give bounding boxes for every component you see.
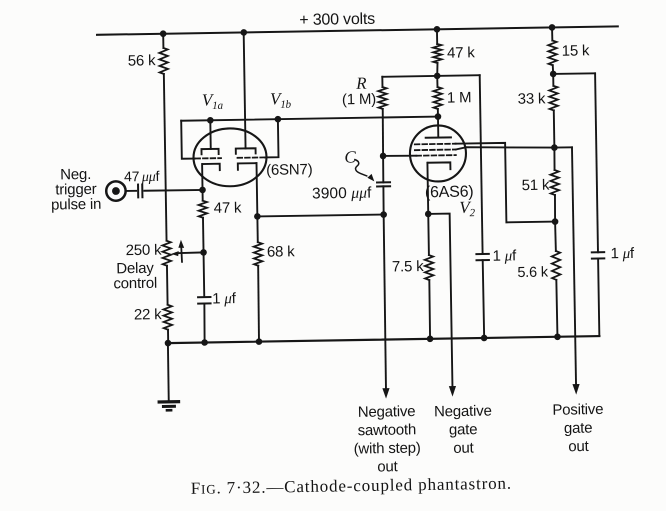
wire grid3 to 51k bottom bbox=[456, 142, 555, 223]
svg-text:Positive: Positive bbox=[552, 401, 603, 419]
svg-text:1 μf: 1 μf bbox=[492, 247, 517, 264]
wire junction to 47k top bbox=[202, 190, 204, 201]
grid V1b dashed bbox=[238, 156, 265, 158]
node ground-22k junction bbox=[165, 340, 172, 347]
wire 1uf right to ground rail end bbox=[598, 258, 599, 336]
svg-text:(with step): (with step) bbox=[354, 440, 421, 458]
wire V1a cathode lead bbox=[201, 164, 203, 190]
resistor 56k bbox=[159, 48, 168, 74]
svg-text:1 M: 1 M bbox=[447, 89, 472, 106]
arrow negative gate out bbox=[449, 386, 456, 397]
arrow negative sawtooth out bbox=[382, 388, 389, 399]
svg-text:56 k: 56 k bbox=[128, 52, 157, 69]
svg-text:68 k: 68 k bbox=[267, 243, 296, 260]
resistor 68k bbox=[254, 242, 263, 266]
node V2 cathode junction bbox=[425, 211, 432, 218]
wire +300V power rail bbox=[97, 26, 618, 34]
node ground-68k junction bbox=[256, 338, 263, 345]
node 15k-33k junction bbox=[550, 71, 557, 78]
svg-text:out: out bbox=[453, 440, 475, 457]
wire connector to C 47uuf bbox=[125, 190, 136, 192]
svg-text:47 k: 47 k bbox=[447, 44, 476, 61]
wire 33k bottom to junction bbox=[553, 110, 556, 147]
wire ground stem bbox=[168, 343, 169, 401]
capacitor 1uf screen bbox=[476, 253, 488, 255]
resistor 33k bbox=[549, 86, 558, 111]
capacitor 1uf right bbox=[592, 251, 604, 253]
wire 5.6k to ground rail bbox=[556, 280, 557, 337]
svg-text:gate: gate bbox=[449, 421, 478, 438]
ground symbol bbox=[159, 400, 178, 404]
wire pot bottom to 22k top bbox=[166, 266, 169, 305]
svg-text:pulse in: pulse in bbox=[51, 196, 101, 214]
wire 47k bottom to wiper junction bbox=[202, 218, 205, 253]
grid V1a dashed bbox=[195, 157, 221, 159]
node power-56k junction bbox=[160, 30, 167, 37]
tube V1 6SN7 envelope bbox=[193, 128, 267, 187]
node power-47k junction bbox=[434, 26, 441, 33]
node R-grid-C junction bbox=[380, 153, 387, 160]
node ground-1uf-delay junction bbox=[201, 339, 208, 346]
wire power to 56k top bbox=[162, 34, 164, 48]
cathode V1b bbox=[238, 163, 257, 170]
node power-15k junction bbox=[549, 24, 556, 31]
svg-text:22 k: 22 k bbox=[134, 306, 163, 323]
wire 22k bottom to ground rail bbox=[167, 330, 169, 343]
wire 51k bottom lead bbox=[554, 195, 557, 222]
wire V2 cathode lead bbox=[426, 163, 429, 214]
svg-text:3900 μμf: 3900 μμf bbox=[312, 185, 372, 203]
wire V1b plate to power rail bbox=[244, 32, 246, 148]
svg-text:5.6 k: 5.6 k bbox=[517, 265, 549, 282]
wire 1uf cap to ground rail bbox=[204, 303, 205, 342]
resistor 7.5k bbox=[425, 255, 434, 280]
wire grid1 to R-C junction bbox=[383, 154, 416, 157]
capacitor 1uf delay bbox=[198, 296, 210, 298]
wire cathode to negative gate line bbox=[428, 214, 452, 387]
resistor 1M bbox=[433, 87, 442, 109]
wire junction to 68k bbox=[256, 216, 258, 242]
svg-text:sawtooth: sawtooth bbox=[357, 421, 416, 439]
wire sawtooth output line bbox=[383, 215, 386, 389]
wire power to 15k top bbox=[551, 27, 553, 40]
wire 51k top lead bbox=[553, 148, 556, 170]
plate V1b bbox=[236, 148, 256, 154]
capacitor C 3900uuf bbox=[377, 181, 390, 183]
wire 1uf screen to ground rail bbox=[483, 260, 484, 338]
svg-text:(6SN7): (6SN7) bbox=[266, 161, 313, 179]
svg-text:15 k: 15 k bbox=[562, 42, 591, 59]
node 1M-plate junction bbox=[435, 113, 442, 120]
connector J1 trigger input bbox=[106, 181, 126, 201]
node 33k-51k-grid2 junction bbox=[551, 144, 558, 151]
wire 7.5k to ground rail bbox=[429, 280, 430, 339]
capacitor 47uuf bbox=[137, 185, 139, 198]
resistor 5.6k bbox=[552, 251, 561, 280]
svg-text:Negative: Negative bbox=[434, 402, 492, 420]
wire grid2 to 33k-51k junction bbox=[456, 146, 555, 150]
node V1b cathode junction bbox=[254, 213, 261, 220]
node C-sawtooth junction bbox=[380, 211, 387, 218]
cathode V1a bbox=[203, 164, 220, 171]
wire 56k bottom to 250k pot top bbox=[164, 74, 167, 241]
wire 15k bottom to junction bbox=[552, 65, 554, 74]
node V1b grid junction bbox=[275, 116, 282, 123]
wire right branch down bbox=[595, 73, 598, 252]
node ground-7.5k junction bbox=[427, 335, 434, 342]
svg-text:47 μμf: 47 μμf bbox=[124, 168, 160, 186]
wire junction to 1uf cap bbox=[203, 252, 206, 297]
wire 47k bottom to junction bbox=[436, 63, 439, 76]
cathode V2 bbox=[427, 162, 450, 169]
wire C 47uuf to V1a cathode node bbox=[144, 190, 202, 191]
wire C cap to cathode line bbox=[382, 186, 385, 214]
svg-text:7.5 k: 7.5 k bbox=[392, 258, 424, 276]
wire cathode junction to 7.5k bbox=[427, 214, 430, 255]
svg-text:C: C bbox=[344, 147, 356, 166]
svg-text:1 μf: 1 μf bbox=[610, 245, 635, 262]
wire screen bus corner down bbox=[480, 75, 483, 254]
wire junction to 1M top bbox=[436, 76, 438, 87]
svg-text:+ 300 volts: + 300 volts bbox=[299, 11, 375, 29]
grid1 V2 dashed bbox=[416, 154, 455, 157]
svg-text:33 k: 33 k bbox=[518, 90, 547, 107]
wire wiper to junction bbox=[176, 251, 203, 254]
wire positive gate line bbox=[572, 147, 576, 384]
wire plate-grid bus bbox=[181, 117, 438, 121]
potentiometer 250k adjust arrow bbox=[180, 247, 183, 262]
node 47k-1M junction bbox=[434, 73, 441, 80]
arrow positive gate out bbox=[572, 384, 579, 395]
wire ground rail bbox=[168, 336, 600, 343]
wire V1b cathode lead bbox=[255, 163, 258, 216]
resistor 47k plate bbox=[433, 44, 442, 63]
wire 33k top lead bbox=[552, 74, 554, 86]
potentiometer 250k body bbox=[162, 241, 171, 266]
svg-text:out: out bbox=[568, 438, 590, 455]
wire 1M bottom to plate bus bbox=[437, 109, 439, 117]
plate V2 bbox=[426, 136, 451, 138]
resistor 47k cathode bbox=[199, 201, 208, 218]
wire 68k to ground rail bbox=[258, 266, 260, 342]
wire junction to positive gate corner bbox=[554, 146, 572, 148]
node V1a plate junction bbox=[207, 117, 214, 124]
node ground-1uf-screen junction bbox=[481, 335, 488, 342]
svg-text:250 k: 250 k bbox=[126, 242, 163, 260]
wire junction to right cap branch bbox=[553, 72, 595, 75]
svg-text:51 k: 51 k bbox=[521, 177, 550, 194]
svg-text:control: control bbox=[113, 275, 157, 293]
wire V1a grid connector bbox=[181, 121, 195, 159]
resistor R 1M bbox=[378, 87, 387, 109]
resistor 22k bbox=[163, 305, 172, 330]
resistor 15k bbox=[548, 40, 557, 65]
wire power to 47k top bbox=[436, 29, 438, 44]
node ground-5.6k junction bbox=[554, 333, 561, 340]
wire R bottom to grid junction bbox=[382, 109, 383, 156]
wire junction to 5.6k bbox=[554, 222, 557, 251]
node 51k-5.6k-grid3 junction bbox=[552, 218, 559, 225]
svg-text:(1 M): (1 M) bbox=[342, 91, 376, 109]
svg-text:Negative: Negative bbox=[358, 403, 416, 421]
tube V2 6AS6 envelope bbox=[410, 125, 467, 182]
grid2 V2 dashed bbox=[415, 148, 456, 151]
node 47k-wiper junction bbox=[200, 249, 207, 256]
svg-text:47 k: 47 k bbox=[214, 199, 243, 216]
svg-text:gate: gate bbox=[564, 420, 593, 437]
wire cathode coupling line bbox=[257, 214, 383, 216]
wire V1b grid connector bbox=[264, 119, 278, 157]
label C pointer squiggle arrow bbox=[355, 159, 367, 176]
resistor 51k bbox=[550, 170, 559, 195]
svg-text:out: out bbox=[377, 458, 399, 475]
node power-V1b-plate junction bbox=[240, 29, 247, 36]
wire grid junction to C cap bbox=[382, 156, 385, 182]
wire 47k-R top bus bbox=[382, 75, 479, 77]
node trigger-cathode junction bbox=[199, 187, 206, 194]
grid3 V2 dashed bbox=[415, 143, 456, 146]
svg-text:1 μf: 1 μf bbox=[212, 290, 237, 307]
wire R top lead bbox=[381, 77, 383, 87]
plate V1a bbox=[201, 149, 218, 154]
